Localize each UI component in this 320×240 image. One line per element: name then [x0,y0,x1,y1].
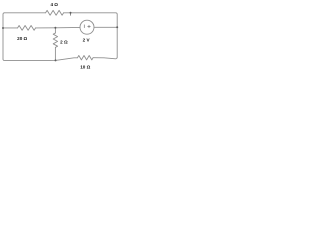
svg-text:20 Ω: 20 Ω [17,36,27,41]
resistor R4 10 ohm zigzag [78,56,94,60]
wire bottom rail left segment [3,58,78,61]
wire top rail right segment [64,13,118,58]
svg-text:2 V: 2 V [83,38,91,43]
junction left border / middle rail [2,27,4,29]
wire bottom rail right segment [93,57,117,59]
svg-text:10 Ω: 10 Ω [80,65,90,70]
voltage source V1 circle [80,20,94,34]
svg-text:2 Ω: 2 Ω [60,40,68,45]
node A stub on top rail [70,13,72,16]
resistor R2 20 ohm zigzag [18,26,36,31]
wire middle rail center segment [36,26,80,29]
resistor R3 2 ohm vertical lead top [54,28,56,33]
node A junction dot [70,12,72,14]
resistor R1 4 ohm zigzag [46,10,64,15]
wire top rail left segment [3,13,46,59]
junction middle rail / R3 top [54,27,56,29]
voltage source V1 minus bar [83,25,85,28]
wire middle rail left lead [3,27,18,29]
svg-text:4 Ω: 4 Ω [50,2,58,7]
wire middle rail right segment [94,26,117,28]
voltage source V1 plus sign [88,25,91,28]
resistor R3 2 ohm zigzag [53,33,57,47]
resistor R3 2 ohm vertical lead bottom [54,47,56,60]
junction right border / middle rail [116,26,118,28]
junction bottom rail / R3 bottom [55,59,57,61]
